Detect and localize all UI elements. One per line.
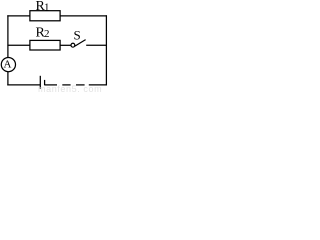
resistor R1 bbox=[30, 11, 60, 21]
svg-text:1: 1 bbox=[44, 2, 50, 14]
wire switch to right bbox=[86, 44, 107, 46]
switch S blade bbox=[75, 40, 86, 47]
ammeter A1 circle bbox=[1, 58, 15, 72]
wire right vertical bbox=[105, 15, 107, 85]
wire bottom right bbox=[89, 84, 107, 86]
svg-text:2: 2 bbox=[44, 28, 50, 40]
wire middle left bbox=[7, 44, 30, 46]
svg-text:A: A bbox=[4, 59, 12, 71]
wire bottom dash 2 bbox=[76, 84, 85, 86]
wire top right bbox=[60, 15, 107, 17]
svg-text:manfen5. com: manfen5. com bbox=[38, 84, 102, 92]
wire left vertical upper bbox=[7, 15, 9, 57]
svg-text:S: S bbox=[74, 27, 81, 42]
resistor R2 bbox=[30, 40, 60, 50]
wire switch to R2 bbox=[60, 44, 72, 46]
switch S pivot bbox=[71, 43, 75, 47]
wire bottom left bbox=[7, 84, 40, 86]
battery short plate bbox=[44, 80, 46, 85]
wire left vertical lower bbox=[7, 72, 9, 86]
wire bottom dash 1 bbox=[62, 84, 70, 86]
wire battery stub bbox=[45, 84, 57, 86]
battery long plate bbox=[39, 76, 41, 89]
wire top left bbox=[7, 15, 30, 17]
